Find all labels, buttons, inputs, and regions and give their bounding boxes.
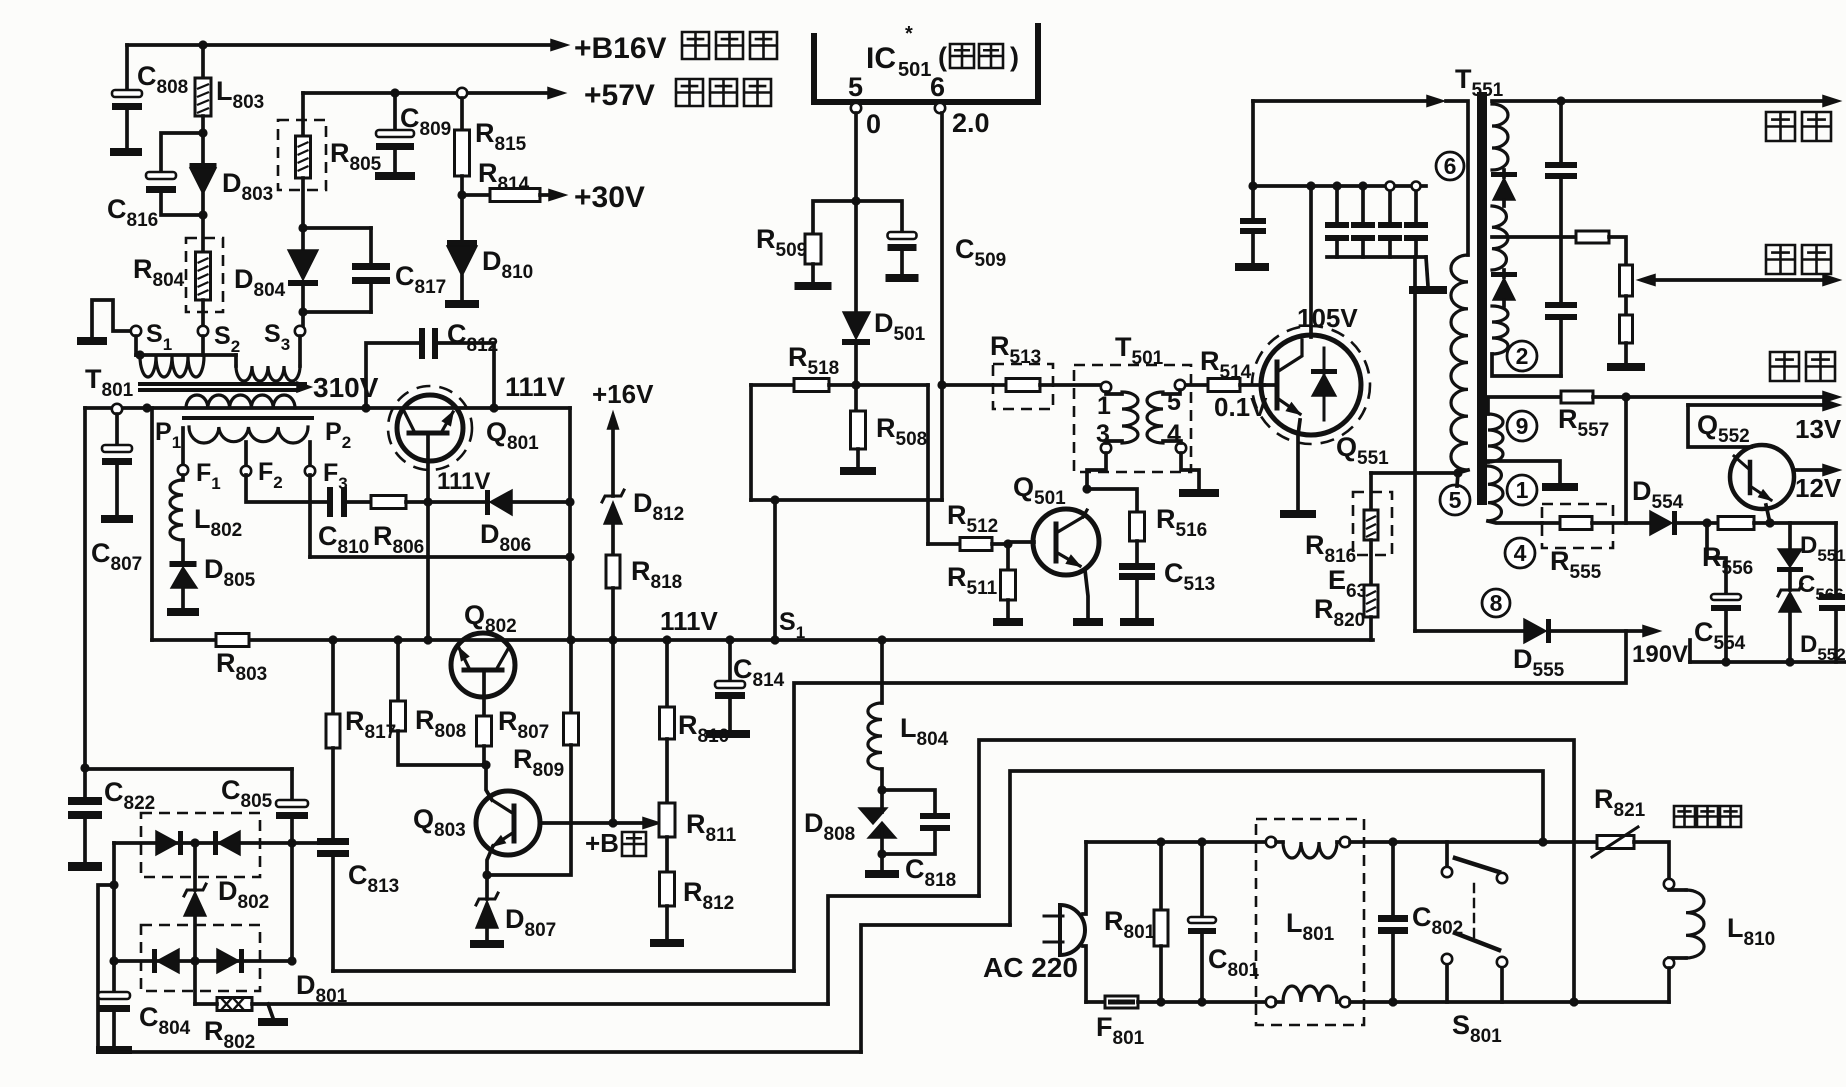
node C816/D803 <box>198 128 207 137</box>
label 消磁 <box>1674 806 1741 827</box>
wire bridge left column <box>112 843 116 961</box>
node D501/R518 <box>851 380 860 389</box>
wire winding bottom loop <box>1492 354 1561 376</box>
wire filament node down <box>1624 397 1628 523</box>
tap C807 <box>112 404 122 414</box>
wire Q801 base column <box>426 433 430 640</box>
wire filter top row <box>1086 840 1266 844</box>
IC U501 (IC501 scan) outline <box>814 26 1038 102</box>
capacitor bank C3 <box>1388 186 1392 222</box>
wire C805 feed rail <box>85 767 292 771</box>
wire row1 to C813 <box>292 841 318 845</box>
label 聚焦 <box>1766 245 1831 274</box>
node 5 marker <box>1440 485 1470 515</box>
T551 secondary mid <box>1492 206 1508 270</box>
wire rail h6 <box>333 969 794 973</box>
svg-text:+57V: +57V <box>584 79 655 112</box>
main bus S1 111V <box>152 638 1373 642</box>
svg-text:6: 6 <box>1444 153 1457 179</box>
tap F1 <box>181 428 185 465</box>
wire row 557 <box>310 555 570 559</box>
wire row y500 <box>751 498 942 502</box>
wire pin5 down <box>854 113 858 201</box>
wire Q803 top <box>486 765 492 800</box>
wire S1 column <box>773 500 777 640</box>
svg-text:310V: 310V <box>313 372 379 403</box>
capacitor bank C2 <box>1361 186 1365 222</box>
node L803 top <box>198 40 207 49</box>
T501 secondary winding <box>1147 392 1163 443</box>
node D804 top <box>298 223 307 232</box>
wire rail h4 <box>828 896 979 1004</box>
T551 primary winding <box>1446 101 1468 255</box>
svg-text:12V: 12V <box>1795 473 1842 503</box>
svg-text:2: 2 <box>1516 343 1529 369</box>
wire collector rail <box>1253 184 1426 188</box>
node S1 wire <box>770 635 779 644</box>
ground R802 <box>268 1004 273 1018</box>
pin 4 of T501 <box>1176 443 1186 453</box>
node 2 marker <box>1507 341 1537 371</box>
focus tap resistor <box>1492 235 1576 239</box>
wire winding1 bottom <box>1488 521 1542 523</box>
bridge row1 left diode <box>114 841 292 845</box>
bridge row1 right diode <box>190 838 199 847</box>
wire node5 row <box>1371 471 1458 475</box>
svg-text:13V: 13V <box>1795 414 1842 444</box>
svg-text:9: 9 <box>1516 413 1529 439</box>
wire tap to ground <box>1488 461 1560 483</box>
ground D807 <box>470 940 504 948</box>
wire zig right <box>926 385 930 544</box>
node Q801 base <box>423 635 432 644</box>
T501 primary winding <box>1122 392 1138 443</box>
wire R802 column <box>193 961 197 1004</box>
node L804 <box>877 635 886 644</box>
wire left main vertical <box>83 408 87 768</box>
wire Q803 emitter <box>487 846 493 875</box>
wire R820 to bus <box>1369 617 1373 640</box>
wire Q802 emitter column <box>482 670 486 716</box>
tap S2 <box>198 326 208 336</box>
node R810 <box>662 635 671 644</box>
wire rail h3 <box>1010 771 1543 925</box>
svg-text:0: 0 <box>866 109 881 139</box>
wire primary bottom to node 5 <box>1458 470 1468 473</box>
wire bottom rail <box>98 1050 861 1054</box>
chassis ground near S1 <box>92 300 131 337</box>
svg-text:111V: 111V <box>505 372 565 402</box>
node R817 <box>328 635 337 644</box>
svg-text:2.0: 2.0 <box>952 108 990 138</box>
winding 1 <box>1488 466 1503 521</box>
svg-text:+B: +B <box>585 828 619 858</box>
wire T501 pin4 to ground <box>1181 453 1199 489</box>
T551 HV secondary top <box>1492 104 1508 170</box>
wire Q552 collector to 13V <box>1688 405 1751 447</box>
ground R509 <box>795 282 832 290</box>
svg-text:5: 5 <box>1449 487 1462 513</box>
ground C510 <box>886 274 919 282</box>
bridge rectifier D802 box <box>141 813 260 877</box>
rectifier diode 2 in T551 <box>1502 270 1506 277</box>
node S1 column top <box>770 495 779 504</box>
ground C513 <box>1120 618 1154 626</box>
node base R806 <box>423 497 432 506</box>
node R557/D554 column <box>1621 392 1630 401</box>
svg-text:1: 1 <box>1097 392 1111 420</box>
switch link <box>1473 884 1475 938</box>
switch S801 pole2 <box>1445 966 1449 1002</box>
node R809 <box>566 635 575 644</box>
main 310V bus <box>85 406 570 410</box>
node R818 column <box>608 635 617 644</box>
node T801 left <box>142 403 151 412</box>
wire +B16V rail <box>127 43 553 47</box>
HV divider capacitor top <box>1559 101 1563 162</box>
pin 3 of T501 <box>1101 443 1111 453</box>
wire Q501 emitter to ground <box>1085 570 1088 618</box>
node D808 top <box>880 769 884 790</box>
svg-text:): ) <box>1010 42 1019 72</box>
ground focus divider <box>1607 363 1645 371</box>
T801 S winding <box>134 336 138 355</box>
svg-text:4: 4 <box>1514 540 1527 566</box>
capacitor C510 <box>856 201 902 232</box>
wire Q803 output +B调 <box>540 821 648 825</box>
svg-text:4: 4 <box>1167 420 1181 448</box>
wire to T551 primary top <box>1251 101 1255 186</box>
wire plug top feed <box>1083 842 1086 914</box>
wire Q551 emitter to ground <box>1298 420 1300 510</box>
svg-text:+30V: +30V <box>574 181 645 214</box>
svg-text:1: 1 <box>1516 477 1529 503</box>
wire rail h2 <box>979 740 1574 1002</box>
svg-text:105V: 105V <box>1297 303 1358 333</box>
ground D808 <box>880 854 884 870</box>
wire zig R518 left <box>749 385 753 500</box>
svg-text:501: 501 <box>898 59 931 81</box>
wire right boundary <box>568 408 572 640</box>
T801 second core <box>184 416 312 420</box>
ground R812 <box>650 939 684 947</box>
wire HV output 高压 <box>1492 99 1826 103</box>
wire Q552 emitter <box>1766 505 1770 523</box>
node 4 marker <box>1505 538 1535 568</box>
wire switch row <box>1393 840 1597 844</box>
focus divider resistor lower <box>1620 315 1633 343</box>
pin 1 of T501 <box>1101 382 1111 392</box>
svg-text:(: ( <box>938 42 947 72</box>
svg-text:190V: 190V <box>1632 641 1688 668</box>
capacitor bank C1 <box>1335 186 1339 222</box>
ground R508 <box>840 467 876 475</box>
label 灯丝 <box>1770 352 1835 381</box>
svg-text:5: 5 <box>848 72 863 102</box>
svg-text:6: 6 <box>930 72 945 102</box>
node 8 marker <box>1482 589 1510 617</box>
wire 12V output <box>1794 468 1826 472</box>
wire Q551 collector <box>1309 186 1313 337</box>
svg-text:+16V: +16V <box>592 379 654 409</box>
T801 F winding <box>189 427 308 443</box>
wire cap bank bottom rail <box>1327 255 1426 259</box>
wire bottom switch row <box>1393 1000 1669 1004</box>
svg-text:+B16V: +B16V <box>574 32 667 65</box>
T801 P winding <box>186 395 295 408</box>
capacitor bank C4 <box>1414 186 1418 222</box>
filament winding 9 <box>1488 414 1503 462</box>
node R808 <box>393 635 402 644</box>
wire T501 pin3 to Q501 <box>1087 453 1106 489</box>
tap F3 <box>308 442 312 466</box>
T801 core <box>140 382 305 386</box>
HV divider capacitor bottom <box>1545 302 1577 308</box>
wire focus output 聚焦 <box>1646 278 1826 282</box>
bridge rectifier D801 box <box>141 925 260 991</box>
T551 secondary low <box>1492 306 1508 354</box>
wire pin8 column <box>1413 257 1417 631</box>
focus divider resistor upper <box>1620 265 1633 296</box>
ground cap bank <box>1409 286 1447 294</box>
wire C509 column <box>940 113 944 500</box>
label 高压 <box>1766 112 1831 141</box>
ground <box>1235 263 1269 271</box>
wire bottom rail right block <box>1690 660 1846 664</box>
wire F3 column <box>308 475 312 557</box>
pin 5 of T501 <box>1175 380 1185 390</box>
bridge row2 diodes <box>114 959 292 963</box>
svg-text:111V: 111V <box>660 606 719 636</box>
svg-text:IC: IC <box>866 42 896 75</box>
svg-text:8: 8 <box>1490 590 1503 616</box>
ground R511 <box>993 618 1023 626</box>
node R814 <box>457 190 466 199</box>
wire bridge right column <box>290 843 294 961</box>
node 6 <box>1436 152 1464 180</box>
damper diode inside Q551 <box>1323 348 1326 420</box>
tap F2 <box>244 442 248 466</box>
rectifier diode in T551 <box>1502 170 1506 177</box>
row D554 <box>1542 521 1560 525</box>
node C814 <box>725 635 734 644</box>
wire rail h5 <box>861 925 1010 1052</box>
capacitor C on collector <box>1251 186 1255 218</box>
svg-text:*: * <box>905 23 913 45</box>
wire rail h1 to 190V node <box>794 631 1626 971</box>
tap S3 <box>295 326 305 336</box>
wire plug bottom feed <box>1083 946 1086 1002</box>
wire +57V rail <box>303 91 550 95</box>
svg-text:111V: 111V <box>437 468 490 495</box>
tap S1 <box>131 326 141 336</box>
switch S801 pole1 <box>1445 842 1449 866</box>
